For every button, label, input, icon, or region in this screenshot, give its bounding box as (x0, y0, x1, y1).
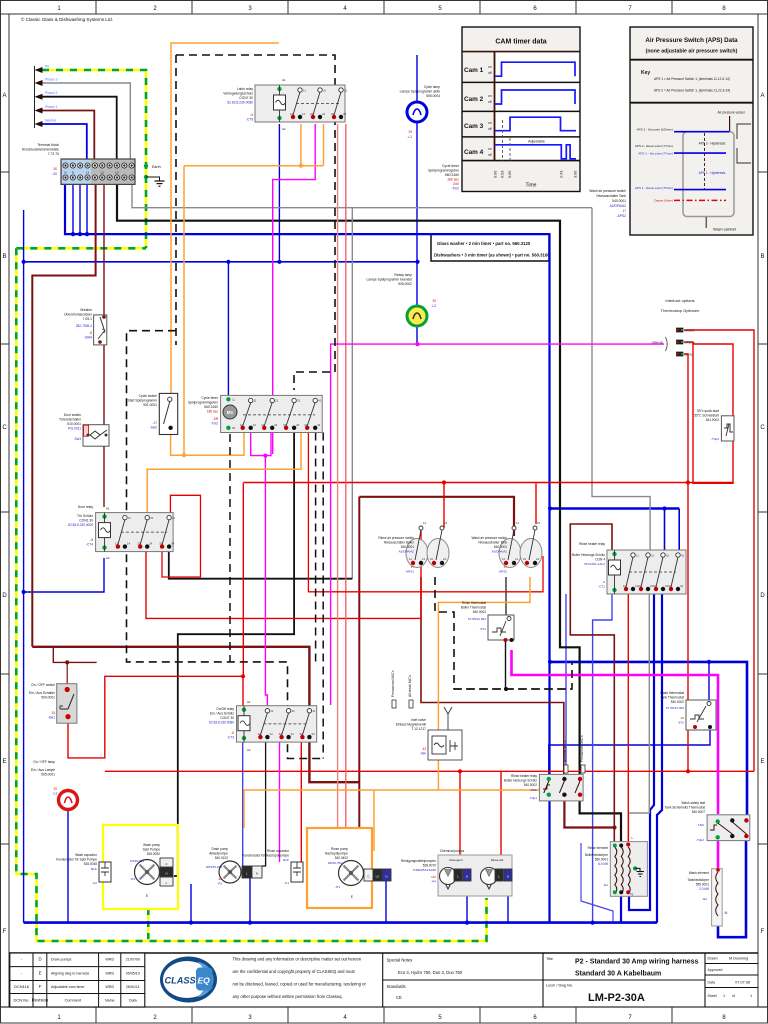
svg-text:-P2: -P2 (217, 882, 222, 886)
wire red interlock ORB-04 (684, 341, 693, 343)
svg-text:-Tm2: -Tm2 (451, 187, 459, 191)
cam time axis labels (494, 171, 578, 189)
svg-text:29: 29 (408, 130, 412, 134)
svg-text:Cycle switch: Cycle switch (139, 394, 157, 398)
svg-text:Pressurised M/C's: Pressurised M/C's (391, 670, 395, 697)
svg-text:This drawing and any informati: This drawing and any information or desc… (233, 957, 362, 962)
cycle timer label beside cam box (428, 164, 460, 191)
svg-text:B: B (2, 254, 6, 260)
rinse element E1 (610, 836, 647, 896)
svg-text:540.0402: 540.0402 (335, 856, 349, 860)
wire red onoff contact drop (300, 742, 302, 862)
svg-text:APS 1 = Air Pressure Switch: APS 1 = Air Pressure Switch 1, (terminal… (654, 77, 730, 81)
svg-text:Ein / Aus Lampe: Ein / Aus Lampe (31, 768, 55, 772)
svg-text:Standards: Standards (387, 984, 406, 989)
svg-text:APS 1 - Reset point (75mm): APS 1 - Reset point (75mm) (635, 186, 673, 190)
svg-text:505.0002: 505.0002 (398, 282, 412, 286)
cam 2 waveform (495, 90, 575, 104)
svg-text:Kondensator für Spül Pumpe: Kondensator für Spül Pumpe (56, 858, 97, 862)
svg-text:510.0001: 510.0001 (67, 422, 81, 426)
cam 1 waveform (495, 62, 575, 76)
cam 3 waveform (495, 117, 576, 131)
svg-text:31: 31 (172, 516, 176, 520)
svg-text:541.0002: 541.0002 (706, 418, 720, 422)
wire blue cycle timer L1 feed (227, 262, 229, 400)
CAM timer data box frame (462, 27, 580, 192)
svg-text:11: 11 (303, 89, 306, 93)
svg-text:APS 1 - Set point (77mm): APS 1 - Set point (77mm) (638, 152, 673, 156)
inlet valve labels (396, 718, 427, 756)
svg-text:-L3: -L3 (52, 792, 57, 796)
wire PE stub to wash pump enclosure (147, 909, 150, 941)
svg-text:Cam 1: Cam 1 (464, 67, 484, 74)
svg-text:11: 11 (128, 516, 131, 520)
wire red wash APS pin21 (535, 483, 537, 524)
svg-text:-C1: -C1 (284, 881, 289, 885)
svg-text:34: 34 (296, 423, 300, 427)
svg-text:E: E (760, 759, 764, 765)
svg-text:3:00: 3:00 (574, 171, 578, 178)
svg-text:ORB-04: ORB-04 (685, 340, 696, 344)
wire orange rinse pump drop (373, 790, 375, 851)
wire blue bottom bus (24, 921, 657, 924)
svg-text:Terminal block: Terminal block (37, 143, 59, 147)
wire orange wash APS run (438, 577, 530, 790)
svg-text:21/07/09: 21/07/09 (126, 958, 140, 962)
svg-text:26/01/11: 26/01/11 (126, 985, 140, 989)
svg-text:21: 21 (292, 709, 296, 713)
svg-text:-Sw1: -Sw1 (48, 716, 55, 720)
svg-text:10: 10 (51, 711, 55, 715)
svg-text:D: D (38, 957, 41, 962)
svg-text:L3: L3 (115, 171, 119, 175)
svg-text:-Tm2: -Tm2 (211, 422, 219, 426)
svg-text:14: 14 (253, 423, 257, 427)
wire rinse pump N drop (385, 881, 387, 923)
wash capacitor (99, 862, 111, 882)
wire drain pump N drop (249, 878, 251, 923)
wire Phase 2 black feed (42, 97, 117, 159)
wire lamp stem between lamps (416, 122, 418, 306)
svg-text:41: 41 (681, 554, 685, 558)
wire PE horizontal run (16, 247, 146, 250)
svg-text:Wash safety stat: Wash safety stat (682, 801, 706, 805)
wash pump motor P3 (135, 860, 160, 885)
wire maroon breaker to door relay (103, 345, 105, 507)
svg-text:540.0102: 540.0102 (215, 856, 229, 860)
cycle lamp labels (400, 85, 441, 139)
wire blue wash thermostat feed (708, 662, 710, 703)
svg-text:On/Off relay: On/Off relay (216, 707, 234, 711)
svg-text:Rinse heater relay: Rinse heater relay (579, 542, 605, 546)
svg-text:APS 2 - Set point (105mm): APS 2 - Set point (105mm) (637, 128, 673, 132)
svg-text:2:43: 2:43 (560, 171, 564, 178)
svg-text:on: on (488, 94, 492, 98)
svg-text:Anschlussklemmenleiste: Anschlussklemmenleiste (22, 148, 59, 152)
svg-text:528.0045: 528.0045 (84, 862, 98, 866)
svg-text:20: 20 (53, 787, 57, 791)
wire orange bottom bus (244, 790, 438, 828)
door relay CT4 (96, 513, 174, 552)
svg-text:N: N (256, 872, 258, 876)
wire black onoff contact to drain pump (262, 742, 266, 866)
svg-text:34: 34 (343, 112, 347, 116)
svg-text:-APS2: -APS2 (498, 570, 507, 574)
svg-text:0:00: 0:00 (494, 171, 498, 178)
rinse pump enclosure (307, 828, 372, 908)
rinse pump terminal boxes (364, 869, 391, 881)
breaker (94, 315, 107, 345)
wire maroon thick bus y646 (32, 647, 359, 782)
svg-text:A2: A2 (247, 748, 251, 752)
wire detergent N drop (466, 881, 468, 923)
svg-text:on: on (488, 65, 492, 69)
wire orange latch contact 14 drop (300, 124, 302, 166)
wash air pressure switch APS2 (499, 539, 521, 568)
on/off switch labels (29, 683, 56, 720)
dashed corridor timer contact 44 (322, 433, 324, 759)
svg-text:-8: -8 (89, 331, 92, 335)
svg-text:Wash air pressure switch: Wash air pressure switch (589, 189, 626, 193)
svg-text:16: 16 (681, 716, 685, 720)
svg-text:11: 11 (254, 399, 257, 403)
wire maroon switch branch (53, 647, 96, 663)
interlock connectors (652, 328, 695, 356)
dashed option boundary top rect (176, 55, 335, 390)
svg-text:L1: L1 (86, 171, 90, 175)
dashed vertical x176 (175, 55, 177, 345)
svg-text:11: 11 (516, 521, 519, 525)
wash thermostat (686, 700, 716, 730)
svg-text:E: E (146, 894, 148, 898)
wash thermostat labels (660, 691, 684, 725)
svg-text:Neutral: Neutral (45, 119, 56, 123)
svg-text:Drawn: Drawn (708, 957, 718, 961)
svg-text:28: 28 (219, 877, 223, 881)
wire red interlock CH-01 (684, 354, 688, 771)
wire red latch contact 34 drop (345, 124, 347, 828)
svg-text:24V: 24V (453, 182, 460, 186)
wire red CON4 element feed (627, 594, 629, 844)
cycle switch labels (128, 394, 158, 430)
svg-text:180 sec: 180 sec (447, 178, 459, 182)
svg-text:Wash cabinet: Wash cabinet (713, 228, 737, 232)
svg-text:32: 32 (653, 584, 657, 588)
cycle timer labels (188, 396, 219, 426)
svg-text:Wash element: Wash element (689, 871, 709, 875)
wire black APS12 link (505, 577, 507, 615)
svg-text:21: 21 (150, 516, 154, 520)
svg-text:12: 12 (290, 112, 294, 116)
svg-text:Niveauschalter Tank: Niveauschalter Tank (596, 194, 626, 198)
title block drawing-title panel (383, 953, 758, 1007)
ready lamp labels (367, 273, 437, 308)
svg-text:Air Pressure Switch (APS) Dat: Air Pressure Switch (APS) Data (645, 37, 738, 44)
rinse thermostat labels (461, 601, 486, 631)
wash pump terminal boxes (160, 858, 173, 886)
svg-text:Rinse element: Rinse element (588, 846, 608, 850)
svg-text:Cycle timer: Cycle timer (202, 396, 219, 400)
svg-text:Drain pump: Drain pump (212, 847, 229, 851)
breaker labels (64, 308, 93, 340)
svg-text:Aligning dwg to harness: Aligning dwg to harness (51, 972, 89, 976)
svg-text:14: 14 (515, 557, 519, 561)
svg-text:540.0007: 540.0007 (692, 810, 706, 814)
svg-text:UC: UC (376, 875, 380, 879)
wash air pressure switch note labels (589, 189, 626, 218)
chemical pumps P4 (438, 855, 512, 896)
APS2 reset / APS1 set line (674, 152, 726, 154)
wire magenta interlock bus (331, 344, 664, 705)
svg-text:7.72.70: 7.72.70 (48, 152, 59, 156)
svg-text:31: 31 (344, 89, 348, 93)
svg-text:Wash capacitor: Wash capacitor (75, 853, 98, 857)
svg-text:-C2: -C2 (92, 881, 97, 885)
APS1 reset line (674, 189, 726, 191)
svg-text:Revision: Revision (32, 998, 49, 1003)
rinse capacitor (291, 862, 303, 882)
wire grey riser x649 lower (629, 590, 650, 844)
svg-text:Reinigungsmittelpumpen: Reinigungsmittelpumpen (401, 859, 436, 863)
wire Phase 1 dark red feed (42, 111, 94, 160)
svg-text:EQ: EQ (198, 975, 211, 985)
svg-text:APS 2 - Hysteresis: APS 2 - Hysteresis (699, 142, 726, 146)
svg-text:Sheet: Sheet (708, 994, 717, 998)
svg-text:14: 14 (302, 112, 306, 116)
wire blue bus 2 (24, 261, 418, 263)
wash pump labels (130, 843, 160, 898)
svg-text:Name: Name (105, 999, 115, 1003)
svg-text:P3R005A13/240: P3R005A13/240 (413, 868, 436, 872)
svg-text:24: 24 (274, 423, 278, 427)
wire blue left vertical (23, 210, 25, 923)
rinse element labels (585, 846, 609, 887)
wire magenta latch contact 22 run (273, 124, 316, 454)
svg-text:12: 12 (257, 732, 261, 736)
svg-text:Spül Pumpe: Spül Pumpe (143, 848, 161, 852)
wire red door relay to APS (146, 528, 421, 618)
wire maroon breaker feed (103, 184, 105, 316)
wire grey to CON4 (592, 208, 650, 553)
svg-text:30: 30 (53, 167, 57, 171)
svg-text:CLASS: CLASS (165, 975, 197, 985)
terminal stub upper (392, 700, 413, 708)
svg-text:62.83.8.230.0080: 62.83.8.230.0080 (209, 721, 234, 725)
svg-text:-L1: -L1 (407, 135, 412, 139)
svg-text:E: E (2, 759, 6, 765)
latch relay CT5 (255, 85, 345, 122)
svg-text:-APS2: -APS2 (616, 214, 626, 218)
svg-text:7.05-1: 7.05-1 (83, 317, 93, 321)
svg-text:DCN116: DCN116 (14, 984, 30, 989)
door switch labels (59, 413, 82, 441)
svg-text:DCN No.: DCN No. (13, 998, 29, 1003)
svg-text:Inlet valve: Inlet valve (411, 718, 426, 722)
wire orange latch lower bus (184, 165, 324, 167)
inlet valve (428, 730, 462, 760)
rinse APS labels (378, 536, 415, 574)
svg-text:540.0002: 540.0002 (524, 783, 538, 787)
svg-text:24: 24 (443, 557, 447, 561)
svg-text:WRD: WRD (106, 972, 115, 976)
wire rinse element right N loop (629, 594, 654, 910)
svg-text:Wash pump: Wash pump (143, 843, 160, 847)
svg-text:43: 43 (422, 747, 426, 751)
svg-text:All break M/C's: All break M/C's (408, 675, 412, 697)
svg-text:Lampe Spülprogramm beendet: Lampe Spülprogramm beendet (367, 278, 413, 282)
wire PE yellow base (42, 70, 146, 248)
svg-text:Phase 2: Phase 2 (45, 91, 58, 95)
svg-text:-CT3: -CT3 (227, 736, 234, 740)
svg-text:A1: A1 (247, 700, 251, 704)
wire grey bus from terminal (132, 184, 592, 208)
svg-text:M Downing: M Downing (729, 957, 748, 961)
svg-text:Air pressure vessel: Air pressure vessel (717, 111, 744, 115)
svg-text:-5R: -5R (213, 417, 219, 421)
svg-text:F: F (3, 929, 7, 935)
svg-text:-Trip1: -Trip1 (529, 796, 537, 800)
svg-text:Standard 30 A Kabelbaum: Standard 30 A Kabelbaum (575, 971, 661, 978)
wire maroon through relay to element (564, 795, 614, 828)
wash capacitor labels (56, 853, 98, 885)
drain pump motor P2 (219, 861, 241, 883)
svg-text:44: 44 (680, 584, 684, 588)
svg-text:31: 31 (312, 709, 316, 713)
wire blue riser x566 (565, 594, 567, 765)
title block revision table (9, 953, 758, 1007)
svg-text:Dishwashers • 3 min timer (as: Dishwashers • 3 min timer (as shown) • p… (434, 253, 550, 258)
svg-text:540.0001: 540.0001 (612, 199, 626, 203)
svg-text:APS 2 = Air Pressure Switch: APS 2 = Air Pressure Switch 1, (terminal… (654, 89, 730, 93)
svg-text:505.0004: 505.0004 (426, 94, 440, 98)
svg-text:282-7006-4: 282-7006-4 (76, 324, 93, 328)
wire red interlock ORB-03 (684, 330, 754, 771)
svg-text:Einlass Magnetventil: Einlass Magnetventil (396, 723, 427, 727)
svg-text:528.0070: 528.0070 (423, 864, 437, 868)
svg-text:D: D (760, 593, 765, 599)
svg-text:NO: NO (431, 875, 436, 879)
svg-text:44: 44 (317, 423, 321, 427)
svg-text:Überstromauslöser: Überstromauslöser (64, 313, 93, 317)
interlock labels (661, 298, 700, 313)
wire orange latch contact 24 drop (323, 124, 325, 166)
wire thick blue bus y662 (550, 662, 748, 820)
svg-text:LM-P2-30A: LM-P2-30A (588, 992, 645, 1004)
svg-text:Verriegelungsschutz: Verriegelungsschutz (223, 92, 253, 96)
svg-text:Niveauschalter Boiler: Niveauschalter Boiler (384, 541, 415, 545)
APS level labels (635, 128, 726, 203)
svg-text:Eco 3, Hydro 750, Duo 3, Duo 7: Eco 3, Hydro 750, Duo 3, Duo 750 (398, 970, 463, 975)
svg-text:A: A (760, 93, 764, 99)
svg-text:Spülprogrammgeber: Spülprogrammgeber (188, 401, 219, 405)
svg-text:12: 12 (502, 557, 506, 561)
wire red onoff relay A1 (242, 676, 244, 705)
svg-text:Niveauschalter Tank: Niveauschalter Tank (478, 541, 507, 545)
phase input bus line (34, 66, 36, 128)
svg-text:ORB-03: ORB-03 (685, 328, 696, 332)
cycle timer M1 (221, 395, 323, 432)
svg-text:-X0: -X0 (52, 172, 57, 176)
terminal block X0 (61, 159, 135, 184)
svg-text:501.0001: 501.0001 (143, 403, 157, 407)
wire magenta timer U-link (251, 428, 271, 456)
svg-text:22: 22 (310, 112, 314, 116)
title block disclaimer text (233, 957, 367, 1000)
svg-text:55°c quick start: 55°c quick start (697, 409, 719, 413)
svg-text:-5: -5 (250, 113, 253, 117)
svg-text:97.55/12.094: 97.55/12.094 (666, 706, 684, 710)
svg-text:C: C (2, 425, 7, 431)
svg-text:On / OFF lamp: On / OFF lamp (33, 760, 55, 764)
55C quick start stat (721, 416, 734, 441)
svg-text:Special Notes: Special Notes (387, 958, 413, 963)
svg-text:of: of (732, 994, 735, 998)
boiler heater contact block Trip1 (539, 774, 583, 801)
svg-text:22: 22 (279, 732, 283, 736)
svg-text:-9: -9 (602, 580, 605, 584)
svg-text:Time: Time (526, 183, 537, 189)
wire magenta thick rinse stat run (512, 650, 719, 814)
svg-text:F: F (761, 929, 765, 935)
svg-text:Chemical pumps: Chemical pumps (440, 849, 465, 853)
svg-text:6.0 kW: 6.0 kW (598, 862, 608, 866)
wire rinse aid N drop (507, 881, 509, 923)
earth point (144, 164, 165, 186)
svg-text:CON7 30: CON7 30 (239, 96, 253, 100)
svg-text:1: 1 (750, 994, 752, 998)
on/off lamp labels (31, 760, 57, 796)
wire orange latch A1 loop (171, 43, 279, 393)
svg-text:Datum (0mm): Datum (0mm) (654, 199, 673, 203)
svg-text:Tür Schütz: Tür Schütz (77, 514, 93, 518)
svg-text:Wash air pressure switch: Wash air pressure switch (472, 536, 508, 540)
svg-text:-CT4: -CT4 (86, 543, 93, 547)
svg-text:560.3160: 560.3160 (445, 173, 459, 177)
svg-text:8mF: 8mF (91, 867, 97, 871)
svg-text:CAM timer data: CAM timer data (495, 39, 546, 46)
svg-text:N: N (64, 171, 66, 175)
svg-text:CE: CE (396, 995, 402, 1000)
svg-text:Start Spülprogramm: Start Spülprogramm (128, 399, 158, 403)
wire blue drop to CON4 pin41 (678, 509, 680, 554)
svg-text:N: N (725, 910, 728, 915)
svg-text:14: 14 (269, 732, 273, 736)
svg-text:-8: -8 (90, 538, 93, 542)
svg-text:Door relay: Door relay (78, 505, 94, 509)
svg-text:PS36-750: PS36-750 (130, 859, 144, 863)
phase arrows and labels (35, 65, 58, 128)
svg-text:22: 22 (261, 423, 265, 427)
svg-text:off: off (488, 71, 492, 75)
wash element E2 (712, 868, 728, 926)
cycle lamp (407, 102, 427, 122)
svg-text:are the confidential and copyr: are the confidential and copyright prope… (233, 969, 356, 974)
wire Neutral blue feed (42, 124, 87, 159)
wire red rinse aid feed (500, 771, 502, 869)
datum line (674, 199, 726, 201)
svg-text:Drain pumps: Drain pumps (51, 958, 72, 962)
svg-text:any other purpose without writ: any other purpose without written permis… (233, 994, 343, 999)
svg-text:Wash thermostat: Wash thermostat (660, 691, 684, 695)
svg-text:-E1: -E1 (603, 883, 608, 887)
drain pump terminal boxes (242, 866, 262, 878)
svg-text:on: on (488, 121, 492, 125)
wire on/off lamp to bottom bus (67, 808, 69, 923)
svg-text:Key: Key (641, 70, 650, 76)
svg-text:41: 41 (318, 399, 322, 403)
svg-text:16/2: 16/2 (698, 823, 704, 827)
door switch (83, 425, 109, 447)
